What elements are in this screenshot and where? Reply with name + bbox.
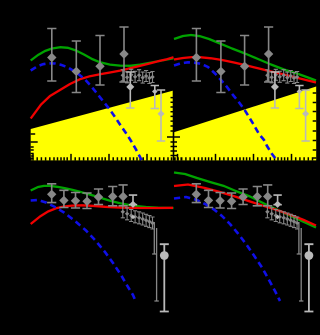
green curve panel 1 [31, 47, 174, 66]
data points panel 4 bottom row [192, 184, 314, 312]
yellow band panel 1 [31, 91, 174, 161]
data points panel 2 top row [192, 27, 310, 141]
blue dashed curve panel 2 [174, 62, 277, 160]
data points panel 1 top row [47, 27, 165, 141]
red curve panel 2 [174, 57, 316, 82]
y-axis tick marks over yellow [31, 93, 317, 159]
red curve panel 4 [174, 185, 316, 226]
green curve panel 4 [174, 173, 316, 228]
green curve panel 2 [174, 35, 316, 81]
yellow band panel 2 [174, 87, 317, 161]
blue dashed curve panel 4 [174, 197, 280, 301]
shared axis line between top panels [173, 85, 175, 160]
green curve panel 3 [31, 186, 174, 208]
blue dashed curve panel 1 [31, 63, 142, 160]
x-axis tick marks over yellow [31, 154, 313, 161]
red curve panel 3 [31, 205, 173, 224]
blue dashed curve panel 3 [31, 200, 136, 302]
data points panel 3 bottom row [47, 184, 169, 312]
red curve panel 1 [31, 57, 174, 118]
